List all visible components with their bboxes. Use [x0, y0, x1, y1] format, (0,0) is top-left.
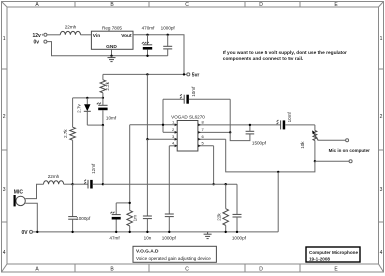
- pin 5: [198, 145, 214, 147]
- svg-text:22mh: 22mh: [65, 24, 77, 29]
- wire 1500pf bracket: [230, 132, 250, 140]
- svg-text:10mf: 10mf: [191, 86, 196, 97]
- svg-text:2: 2: [3, 114, 6, 120]
- node C12 rail: [236, 231, 238, 233]
- node pot bottom: [314, 160, 316, 162]
- wire corner down to R1: [102, 74, 104, 79]
- svg-text:5vr: 5vr: [192, 73, 200, 79]
- wire Vout rail: [133, 35, 184, 75]
- wire bias down to mic line: [102, 125, 104, 184]
- svg-text:V.O.G.A.D: V.O.G.A.D: [136, 249, 159, 255]
- resistor R4 22k: [225, 184, 227, 209]
- capacitor C9 12mf: [73, 183, 88, 185]
- capacitor C2 1000pf: [167, 35, 169, 47]
- wire zener bottom rail: [87, 124, 103, 126]
- wire ground rail: [33, 231, 279, 233]
- capacitor C6 10mf output: [280, 120, 282, 129]
- svg-text:4: 4: [3, 250, 6, 256]
- node R3 top: [129, 202, 131, 204]
- svg-text:0V: 0V: [22, 230, 29, 236]
- wire inductor to regulator: [81, 34, 92, 36]
- bottom band letters: [35, 267, 338, 273]
- svg-text:1m: 1m: [133, 215, 138, 222]
- wire 5v line: [103, 73, 187, 75]
- potentiometer VR1 10k: [314, 125, 316, 131]
- inductor L2 22mh: [44, 181, 64, 184]
- wiper arrow: [314, 133, 319, 140]
- svg-text:MIC: MIC: [14, 190, 24, 196]
- svg-text:10n: 10n: [144, 236, 152, 241]
- wire 12v to inductor: [47, 34, 60, 36]
- svg-text:12mf: 12mf: [91, 163, 96, 174]
- bottom band ticks: [75, 264, 300, 272]
- svg-text:4: 4: [380, 250, 383, 256]
- svg-text:1000pf: 1000pf: [161, 25, 176, 30]
- svg-text:3: 3: [3, 187, 6, 193]
- ground symbol mid: [204, 232, 212, 239]
- feedback loop vertical right: [229, 99, 231, 132]
- wire pot bottom to terminal: [315, 160, 349, 162]
- svg-text:Voice operated gain adjusting: Voice operated gain adjusting device: [136, 256, 211, 261]
- wire inductor to node: [64, 183, 73, 185]
- inductor L1 22mh: [60, 31, 80, 34]
- pin 4: [169, 145, 177, 147]
- node R3 rail: [129, 231, 131, 233]
- node pin7: [229, 131, 231, 133]
- wire pin5 down: [213, 146, 215, 184]
- ground symbol regulator: [108, 56, 116, 62]
- node 470mf bottom: [146, 55, 148, 57]
- svg-text:1: 1: [380, 36, 383, 42]
- corner diagonal top-right: [379, 2, 384, 8]
- node bias: [102, 97, 104, 99]
- wire mic line to right: [103, 183, 237, 185]
- wire wiper to terminal: [318, 139, 346, 141]
- wire 0v riser: [277, 172, 279, 232]
- capacitor C3 10mf: [102, 98, 104, 105]
- node C10 rail: [71, 231, 73, 233]
- corner diagonal bottom-left: [2, 264, 8, 272]
- capacitor C10 1000pf mic: [72, 184, 74, 216]
- node zener top: [86, 97, 88, 99]
- pin 7: [198, 131, 230, 133]
- svg-text:22mh: 22mh: [48, 174, 60, 179]
- wire pin6 to pot bottom: [226, 139, 315, 172]
- node pin1 feedback: [162, 124, 164, 126]
- node bias bottom: [102, 124, 104, 126]
- wire 5v vertical: [146, 74, 148, 139]
- terminal mic sleeve: [349, 160, 352, 163]
- svg-text:Vout: Vout: [121, 33, 132, 39]
- terminal 5vr: [187, 73, 190, 76]
- capacitor C11 47mf: [115, 203, 117, 215]
- right band numbers: [380, 36, 383, 256]
- corner diagonal bottom-right: [379, 264, 384, 272]
- svg-text:10mf: 10mf: [106, 116, 117, 121]
- svg-text:Mic in on computer: Mic in on computer: [329, 148, 371, 153]
- capacitor C5 1500pf: [246, 133, 255, 135]
- resistor R2 2.7k: [72, 98, 74, 127]
- svg-text:2.2k: 2.2k: [105, 81, 110, 90]
- svg-text:VOGAD SL6270: VOGAD SL6270: [171, 114, 205, 119]
- wire pin4 1000pf: [168, 146, 170, 214]
- svg-text:components and connect to 5v r: components and connect to 5v rail.: [223, 56, 303, 62]
- svg-text:D: D: [259, 267, 263, 273]
- top band ticks: [75, 2, 300, 8]
- left band ticks: [2, 69, 8, 222]
- title box Computer Microphone: [306, 247, 360, 262]
- node mic 0v: [36, 231, 38, 233]
- svg-text:10mf: 10mf: [287, 111, 292, 122]
- wire 47mf 1m top link: [116, 202, 130, 204]
- capacitor C12 1000pf right: [236, 184, 238, 214]
- left band numbers: [3, 36, 6, 256]
- resistor R3 1m: [129, 125, 131, 211]
- svg-text:3: 3: [380, 187, 383, 193]
- title box VOGAD: [133, 246, 216, 262]
- svg-text:If you want to use 5 volt supp: If you want to use 5 volt supply, dont u…: [223, 50, 347, 56]
- svg-text:C: C: [185, 2, 189, 8]
- resistor R1 2.2k: [100, 80, 106, 93]
- svg-text:Reg 7805: Reg 7805: [102, 25, 122, 30]
- node 5vr tee: [183, 73, 185, 75]
- terminal mic tip: [346, 139, 349, 142]
- right band ticks: [379, 69, 384, 222]
- svg-text:Vin: Vin: [93, 33, 100, 39]
- capacitor C7 10n: [143, 215, 152, 217]
- svg-text:1: 1: [3, 36, 6, 42]
- svg-text:10k: 10k: [300, 141, 305, 149]
- node C11 rail: [115, 231, 117, 233]
- svg-text:22k: 22k: [216, 213, 221, 221]
- svg-text:1000pf: 1000pf: [76, 216, 91, 221]
- corner diagonal top-left: [2, 2, 8, 8]
- svg-text:D: D: [259, 2, 263, 8]
- feedback loop vertical left: [162, 99, 164, 132]
- node 470mf top: [146, 34, 148, 36]
- node R4 rail: [225, 231, 227, 233]
- node mic input: [71, 183, 73, 185]
- node 1500pf pin8: [249, 124, 251, 126]
- node 1000pf top: [167, 34, 169, 36]
- svg-text:2: 2: [380, 114, 383, 120]
- svg-text:2.7k: 2.7k: [63, 129, 68, 138]
- wire node left: [73, 97, 103, 99]
- svg-text:0v: 0v: [34, 40, 40, 46]
- capacitor C4 10mf feedback: [163, 98, 184, 100]
- zener D1 2.7v: [86, 98, 88, 104]
- node pin3: [146, 138, 148, 140]
- node 5v tee: [146, 73, 148, 75]
- wire 10n down: [146, 139, 148, 216]
- pin 3: [147, 138, 177, 140]
- svg-text:470mf: 470mf: [142, 25, 155, 30]
- node pin5 mic line: [212, 183, 214, 185]
- pin 2: [163, 131, 177, 133]
- svg-text:Computer Microphone: Computer Microphone: [309, 250, 358, 255]
- pin 1: [130, 124, 178, 126]
- svg-text:C: C: [185, 267, 189, 273]
- pin 8: [198, 124, 281, 126]
- svg-text:47mf: 47mf: [109, 236, 120, 241]
- wire mic top: [25, 184, 43, 198]
- capacitor C8 1000pf: [165, 213, 174, 215]
- svg-text:1000pf: 1000pf: [162, 236, 177, 241]
- capacitor C1 470mf: [147, 35, 149, 45]
- IC U2 VOGAD SL6270: [177, 121, 198, 152]
- node 0v riser: [277, 171, 279, 173]
- svg-text:2.7v: 2.7v: [76, 103, 81, 112]
- wire R1 to node: [102, 93, 104, 98]
- wire GND pin down: [111, 49, 113, 56]
- node GND junction: [110, 55, 112, 57]
- svg-text:1000pf: 1000pf: [232, 236, 247, 241]
- node 22k top: [225, 183, 227, 185]
- svg-text:1500pf: 1500pf: [252, 141, 267, 146]
- top band letters: [35, 2, 338, 8]
- wire mic bottom: [25, 203, 37, 232]
- regulator U1 box: [91, 31, 133, 49]
- node C7 rail: [146, 231, 148, 233]
- node C8 rail: [168, 231, 170, 233]
- svg-text:12v: 12v: [33, 33, 42, 39]
- node bias mic line: [102, 183, 104, 185]
- pin 6: [198, 138, 226, 140]
- wire 0v to ground rail: [47, 42, 168, 56]
- svg-text:19-1-2008: 19-1-2008: [309, 256, 330, 261]
